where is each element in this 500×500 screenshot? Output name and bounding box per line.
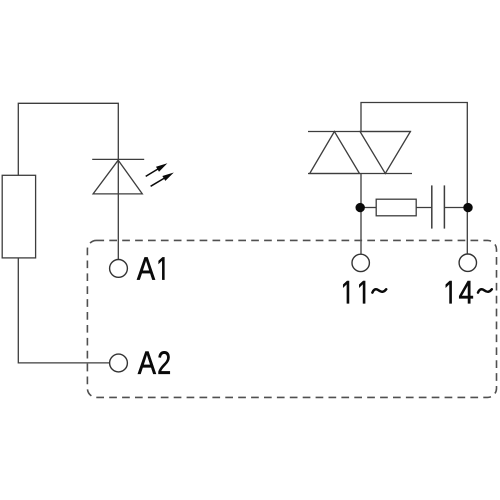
- label 11 tilde: [372, 289, 386, 292]
- label 11 digit 1 (second): [359, 281, 365, 303]
- triac top lead wire: [361, 103, 467, 254]
- label 11 digit 1 (first): [343, 281, 349, 303]
- label 14 digit 1: [446, 281, 452, 303]
- LED cathode bar: [92, 158, 144, 160]
- LED triangle: [93, 160, 142, 194]
- snubber wire middle: [416, 207, 432, 209]
- terminal A1: [110, 260, 128, 278]
- snubber wire right: [445, 207, 468, 209]
- snubber resistor: [376, 199, 416, 216]
- wire LED cathode to A1: [117, 159, 119, 259]
- terminal 14: [459, 254, 476, 271]
- triac right triangle: [360, 132, 410, 174]
- label A2 digit 2: [158, 351, 169, 374]
- triac left triangle: [310, 132, 360, 174]
- label 14 digit 4: [459, 281, 473, 303]
- label 14 tilde: [478, 289, 492, 292]
- wire top-left loop: [18, 103, 118, 175]
- LED arrow 2: [149, 170, 175, 189]
- module outline (dashed): [87, 240, 496, 397]
- terminal 11: [352, 254, 369, 271]
- capacitor plate right: [443, 185, 445, 228]
- label A2 letter A: [138, 352, 156, 374]
- capacitor plate left: [431, 185, 433, 228]
- label A1 letter A: [137, 257, 155, 279]
- triac top bar: [308, 131, 411, 133]
- LED arrow 1: [144, 161, 169, 179]
- triac bottom bar: [308, 173, 412, 175]
- wire resistor bottom to A2: [18, 258, 109, 363]
- junction dot left: [356, 203, 365, 212]
- label A1 digit 1: [159, 257, 165, 279]
- snubber wire left: [361, 207, 377, 209]
- terminal A2: [110, 354, 128, 372]
- junction dot right: [463, 203, 472, 212]
- resistor R (input series): [2, 175, 35, 258]
- triac bottom lead wire: [360, 174, 362, 255]
